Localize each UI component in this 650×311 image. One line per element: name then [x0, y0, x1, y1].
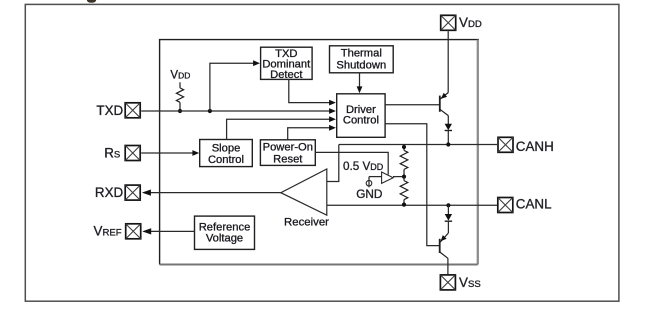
label 0.5 VDD: [343, 160, 384, 173]
svg-text:Control: Control: [343, 115, 379, 127]
svg-text:TXD: TXD: [96, 103, 123, 118]
wire Power-On Reset to Driver Control: [288, 125, 336, 140]
resistor R2 (CANH side of divider): [400, 145, 408, 177]
wire CANL net (receiver lower input to CANL pin): [327, 204, 497, 206]
box Reference Voltage: [195, 216, 255, 249]
box Slope Control: [200, 140, 253, 167]
wire TXD pin to Driver Control: [141, 108, 336, 114]
svg-text:CANH: CANH: [516, 139, 554, 154]
wire CANH net: [339, 144, 497, 146]
figure caption remnant (cut-off text descender): [87, 0, 96, 3]
svg-text:RXD: RXD: [95, 185, 124, 200]
wire TXD branch to TXD Dominant Detect: [210, 60, 260, 111]
pin CANL: [498, 197, 552, 213]
pin RXD: [95, 185, 140, 200]
wire VDD pin down to Q1: [447, 31, 449, 92]
wire Q2 emitter to VSS pin: [447, 258, 449, 274]
svg-text:Slope: Slope: [212, 142, 241, 154]
pin CANH: [498, 137, 554, 154]
box Power-On Reset: [260, 140, 315, 166]
svg-text:Thermal: Thermal: [341, 47, 382, 59]
wire Reference Voltage to VREF pin: [142, 228, 194, 234]
pin Rs: [104, 145, 140, 160]
svg-text:Power-On: Power-On: [263, 141, 313, 153]
svg-text:Receiver: Receiver: [284, 217, 329, 229]
svg-text:Control: Control: [208, 154, 244, 166]
resistor R1 (VDD pull-up): [176, 82, 183, 111]
svg-text:Reset: Reset: [273, 154, 303, 166]
op-amp Receiver: [281, 169, 329, 229]
svg-text:Shutdown: Shutdown: [336, 60, 386, 72]
svg-text:0.5 VDD: 0.5 VDD: [343, 160, 384, 173]
resistor R3 (CANL side of divider): [400, 177, 408, 206]
svg-text:GND: GND: [356, 187, 382, 201]
wire Rs pin to Slope Control: [141, 150, 199, 156]
pin TXD: [96, 103, 140, 118]
node dot CANL/D2: [446, 203, 450, 207]
wire Driver Control to Q1 base: [385, 104, 439, 106]
wire Slope Control to Driver Control: [227, 116, 336, 139]
node junction dot at R1/TXD wire: [178, 109, 182, 113]
pin VSS (bottom): [440, 275, 480, 290]
wire buffer input with GND terminal: [369, 177, 382, 188]
box Driver Control U1: [337, 94, 385, 138]
node dot divider midpoint: [402, 175, 406, 179]
ground terminal circle: [366, 180, 372, 186]
op-amp 0.5VDD buffer: [382, 172, 394, 183]
wire Thermal Shutdown to Driver Control: [357, 73, 363, 93]
wire Receiver input to CANH line: [327, 145, 339, 182]
node dot bottom of divider: [402, 203, 406, 207]
label VDD (pull-up supply): [170, 70, 190, 82]
diode D2 (CANL): [445, 205, 452, 233]
label GND: [356, 187, 382, 201]
wire buffer output to resistor midpoint: [393, 176, 404, 178]
wire Driver Control to Q2 base: [385, 124, 439, 246]
svg-text:VDD: VDD: [170, 70, 190, 82]
wire Power-On Reset to 0.5 VDD buffer: [315, 152, 388, 174]
pin VDD (top): [441, 15, 482, 30]
box Thermal Shutdown: [330, 46, 394, 73]
wire TXD Dominant Detect to Driver Control: [289, 79, 336, 105]
node dot D1/CANH: [446, 142, 450, 146]
wire Q1 to diode D1: [447, 116, 449, 124]
wire Receiver output to RXD pin: [142, 190, 281, 196]
diode D1 (CANH): [445, 124, 452, 145]
chip boundary box: [159, 40, 479, 265]
svg-text:Detect: Detect: [270, 69, 303, 81]
node junction dot TXD branch: [208, 109, 212, 113]
node dot top of divider: [402, 145, 406, 149]
transistor Q2 (lower driver): [440, 233, 449, 258]
transistor Q1 (upper driver): [440, 93, 449, 116]
pin VREF: [94, 224, 141, 239]
box TXD Dominant Detect: [261, 47, 313, 81]
svg-text:CANL: CANL: [516, 197, 552, 212]
svg-text:Voltage: Voltage: [206, 233, 243, 245]
